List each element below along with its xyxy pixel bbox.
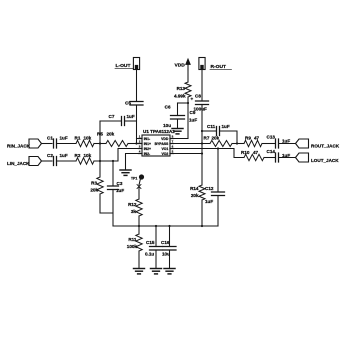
wire	[279, 143, 296, 145]
svg-text:20k: 20k	[191, 193, 199, 198]
capacitor C15	[155, 226, 157, 247]
power flag VDD	[186, 59, 191, 65]
svg-text:10u: 10u	[163, 123, 171, 128]
svg-text:C14: C14	[267, 149, 276, 154]
capacitor C1	[54, 139, 57, 148]
svg-text:C8: C8	[195, 94, 201, 99]
wire	[201, 200, 203, 226]
wire	[201, 105, 203, 186]
svg-text:VDD: VDD	[175, 63, 186, 69]
svg-text:RIN_JACK: RIN_JACK	[7, 144, 31, 149]
node	[217, 147, 219, 149]
svg-text:C1: C1	[47, 136, 53, 141]
svg-text:4.99k: 4.99k	[174, 94, 186, 99]
ground	[164, 269, 175, 274]
resistor R9	[244, 140, 262, 146]
svg-text:20k: 20k	[212, 136, 220, 141]
ground bus wire	[113, 225, 218, 227]
wire	[187, 68, 189, 82]
connector J3 L-OUT	[133, 58, 139, 70]
svg-text:BYPASS: BYPASS	[155, 142, 169, 146]
wire	[178, 102, 189, 104]
svg-text:LIN_JACK: LIN_JACK	[7, 161, 30, 166]
node	[138, 225, 140, 227]
node	[201, 130, 203, 132]
capacitor C11	[217, 127, 220, 136]
svg-text:VDD: VDD	[161, 137, 169, 141]
node	[187, 102, 189, 104]
svg-text:C5: C5	[125, 101, 131, 106]
svg-text:1uF: 1uF	[116, 188, 124, 193]
pin 3	[139, 148, 143, 150]
wire	[42, 143, 53, 145]
svg-text:3k: 3k	[131, 209, 137, 214]
ground	[151, 269, 162, 274]
svg-text:+: +	[191, 97, 194, 102]
capacitor C2	[54, 157, 57, 166]
svg-text:R3: R3	[91, 181, 97, 186]
wire	[100, 120, 121, 122]
wire pin 1 stub	[137, 138, 141, 140]
svg-text:R7: R7	[204, 136, 210, 141]
svg-text:R1: R1	[75, 136, 81, 141]
wire	[125, 120, 137, 122]
node	[135, 142, 137, 144]
svg-text:TP1: TP1	[131, 177, 137, 181]
connector J1	[29, 139, 42, 148]
svg-text:C12: C12	[205, 186, 214, 191]
capacitor C13	[276, 139, 279, 148]
wire to pin 8	[172, 138, 188, 140]
node	[99, 160, 101, 162]
wire	[99, 194, 101, 213]
svg-text:1uF: 1uF	[60, 136, 68, 141]
wire	[201, 70, 203, 101]
wire	[232, 143, 244, 145]
wire	[100, 213, 113, 226]
resistor R1	[76, 140, 94, 146]
svg-text:47: 47	[253, 150, 259, 155]
wire	[174, 143, 211, 145]
svg-text:ROUT_JACK: ROUT_JACK	[311, 144, 340, 149]
pin 7	[170, 143, 174, 145]
svg-text:C11: C11	[207, 124, 216, 129]
wire pin 5 arm	[174, 153, 203, 155]
resistor R11	[138, 226, 140, 234]
node	[99, 142, 101, 144]
svg-text:R13: R13	[177, 86, 186, 91]
resistor R12	[136, 199, 142, 216]
svg-text:20k: 20k	[107, 132, 115, 137]
wire pin 4 to ground	[126, 154, 141, 171]
svg-text:C16: C16	[161, 240, 170, 245]
svg-text:1uF: 1uF	[282, 139, 290, 144]
connector J2	[29, 157, 42, 166]
pin 4	[139, 153, 143, 155]
wire	[57, 160, 77, 162]
svg-text:IN2-: IN2-	[144, 152, 150, 156]
wire	[42, 160, 53, 162]
capacitor C5	[130, 102, 143, 106]
wire	[138, 216, 140, 226]
svg-text:1uF: 1uF	[60, 153, 68, 158]
wire	[279, 157, 296, 159]
svg-text:C3: C3	[117, 181, 123, 186]
resistor R10	[244, 154, 264, 160]
ground	[120, 170, 131, 175]
IC U1	[142, 135, 170, 156]
connector J6	[296, 153, 309, 162]
wire	[136, 70, 138, 101]
resistor R3	[97, 177, 103, 194]
pin 8	[170, 138, 174, 140]
svg-text:10k: 10k	[84, 136, 92, 141]
svg-text:1uF: 1uF	[189, 118, 197, 123]
wire	[264, 157, 275, 159]
capacitor C12	[217, 149, 219, 193]
connector J4 R-OUT	[199, 58, 205, 70]
wire	[220, 131, 237, 144]
svg-text:R10: R10	[241, 150, 250, 155]
wire	[136, 105, 138, 144]
svg-text:IN1+: IN1+	[144, 142, 151, 146]
svg-text:0.1u: 0.1u	[145, 252, 154, 257]
wire	[187, 97, 189, 139]
svg-text:R2: R2	[75, 153, 81, 158]
svg-text:C2: C2	[47, 153, 53, 158]
wire	[174, 149, 245, 158]
svg-text:IN1-: IN1-	[144, 137, 150, 141]
capacitor C7	[122, 117, 125, 126]
svg-text:C7: C7	[109, 114, 115, 119]
svg-text:U1 TPA6112A2: U1 TPA6112A2	[143, 129, 175, 134]
resistor R13	[185, 82, 191, 97]
resistor R7	[210, 141, 232, 147]
wire	[262, 143, 275, 145]
svg-text:1uF: 1uF	[205, 199, 213, 204]
wire	[139, 179, 141, 186]
node	[201, 142, 203, 144]
resistor R5	[106, 141, 128, 147]
svg-text:LOUT_JACK: LOUT_JACK	[311, 158, 339, 163]
svg-text:1uF: 1uF	[127, 114, 135, 119]
svg-text:10k: 10k	[84, 153, 92, 158]
capacitor C16	[169, 226, 171, 247]
svg-text:R14: R14	[190, 186, 199, 191]
resistor R14	[199, 185, 205, 200]
ground	[172, 129, 183, 134]
svg-text:VO1: VO1	[162, 147, 169, 151]
svg-text:100uF: 100uF	[194, 107, 207, 112]
wire	[57, 143, 77, 145]
wire	[202, 130, 216, 132]
svg-text:R11: R11	[128, 237, 137, 242]
ground	[134, 269, 145, 274]
connector J5	[296, 139, 309, 148]
capacitor C8	[196, 101, 209, 105]
svg-text:1uF: 1uF	[222, 124, 230, 129]
capacitor C6	[177, 103, 179, 116]
svg-text:R9: R9	[245, 136, 251, 141]
pin 6	[170, 148, 174, 150]
svg-text:C6: C6	[165, 105, 171, 110]
svg-text:20k: 20k	[90, 188, 98, 193]
svg-text:10u: 10u	[162, 252, 170, 257]
svg-text:C13: C13	[267, 135, 276, 140]
wire	[94, 143, 106, 145]
svg-text:47: 47	[254, 136, 260, 141]
wire	[99, 121, 101, 177]
wire	[94, 149, 140, 162]
capacitor C14	[276, 153, 279, 162]
svg-text:100k: 100k	[127, 244, 138, 249]
wire	[128, 143, 140, 145]
pin 2	[139, 143, 143, 145]
resistor R2	[76, 158, 94, 164]
pin 1	[139, 138, 143, 140]
svg-text:R12: R12	[128, 202, 137, 207]
svg-text:C15: C15	[146, 240, 155, 245]
svg-text:VO2: VO2	[162, 152, 169, 156]
svg-text:IN2+: IN2+	[144, 147, 151, 151]
pin 5	[170, 153, 174, 155]
capacitor C3	[112, 161, 114, 186]
